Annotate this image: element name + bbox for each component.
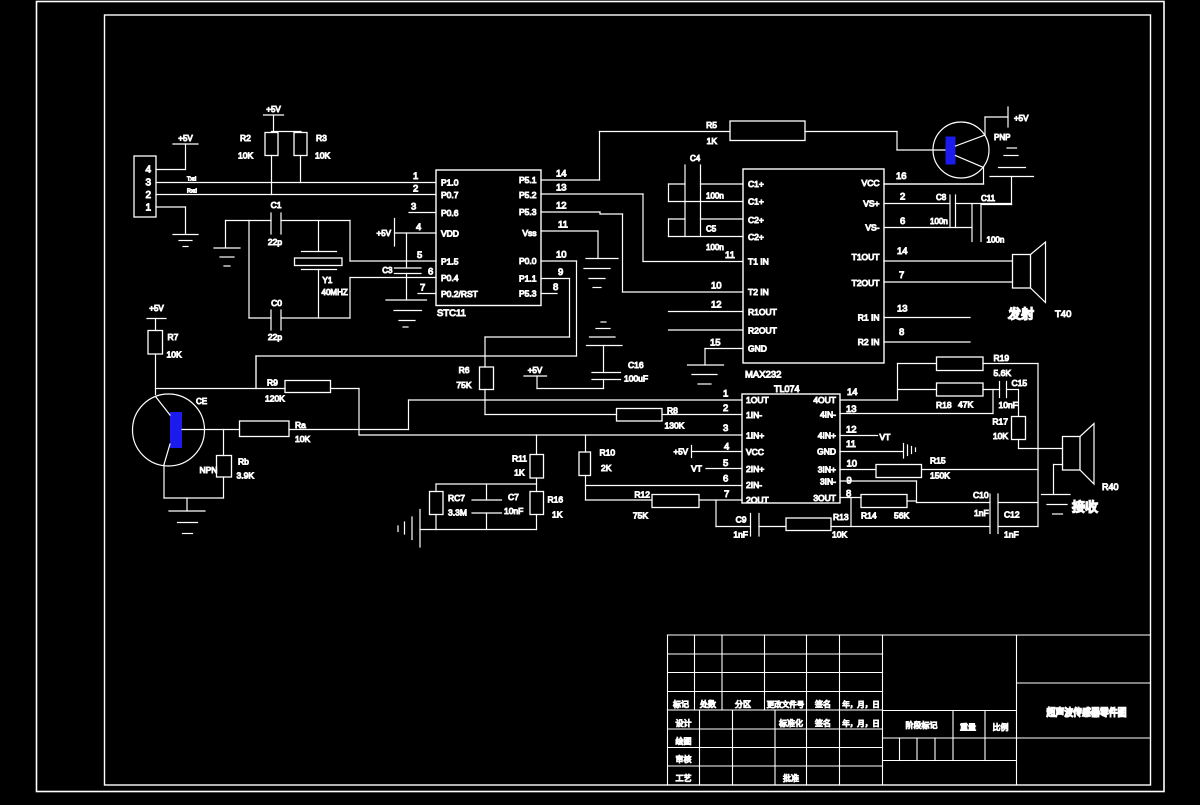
wire U2 VS+	[884, 203, 950, 205]
wire U2 GND pin15	[705, 349, 743, 366]
svg-text:设计: 设计	[676, 718, 692, 728]
svg-text:绘图: 绘图	[676, 736, 692, 746]
svg-text:审核: 审核	[676, 754, 692, 764]
wire main right bus	[1037, 364, 1039, 527]
svg-text:2OUT: 2OUT	[746, 495, 769, 505]
svg-text:10K: 10K	[832, 530, 847, 540]
wire C9 to R13	[759, 526, 786, 528]
ground (filter)	[398, 510, 420, 548]
svg-text:年，月，日: 年，月，日	[842, 718, 880, 728]
svg-text:+5V: +5V	[178, 134, 193, 143]
IC U1 STC11 body	[436, 170, 541, 319]
capacitor C9	[733, 514, 759, 540]
wire Y1 to U1 pin5	[350, 221, 436, 262]
svg-text:C5: C5	[706, 225, 717, 234]
crystal Y1	[295, 221, 348, 319]
wire C11 to ground node	[981, 204, 1012, 206]
svg-text:6: 6	[900, 216, 905, 227]
wire R18 to C15	[983, 389, 1000, 391]
svg-text:4IN+: 4IN+	[818, 431, 836, 441]
wire U2 T2IN	[623, 291, 744, 293]
svg-text:10: 10	[556, 250, 567, 261]
svg-text:Vss: Vss	[522, 228, 536, 238]
svg-text:接收: 接收	[1072, 500, 1099, 515]
svg-text:VDD: VDD	[441, 229, 459, 239]
IC U3 TL074 body	[742, 384, 840, 503]
power +5V (PNP)	[1008, 107, 1029, 127]
svg-text:RC7: RC7	[448, 493, 465, 503]
net VT (U3 pin12)	[840, 432, 890, 442]
ground (connector)	[173, 235, 198, 247]
wire R17 to R40	[1019, 440, 1063, 449]
transducer T40 (transmit)	[1007, 242, 1071, 322]
wire C8 to ground node	[956, 203, 1012, 205]
svg-text:3: 3	[145, 178, 151, 189]
svg-text:2: 2	[145, 190, 151, 201]
svg-text:P0.0: P0.0	[519, 256, 537, 266]
svg-text:PNP: PNP	[994, 133, 1010, 142]
transistor NPN	[133, 394, 218, 475]
svg-text:T1OUT: T1OUT	[852, 252, 880, 262]
wire U3 3IN+ to R15	[840, 469, 876, 471]
svg-text:签名: 签名	[815, 718, 831, 728]
svg-text:3IN-: 3IN-	[820, 477, 836, 487]
svg-text:3IN+: 3IN+	[818, 465, 836, 475]
wire U3 4OUT node	[840, 364, 898, 401]
wire U1 pin12 to U2 T2IN	[541, 212, 623, 292]
wire J1 pin2 Rxd to U1 pin2	[156, 189, 436, 195]
svg-text:C15: C15	[1012, 378, 1028, 388]
svg-text:C7: C7	[508, 492, 519, 502]
svg-text:10K: 10K	[238, 151, 253, 161]
capacitor C16	[592, 346, 648, 389]
resistor R15	[876, 456, 950, 481]
wire U3 VCC pin4	[692, 451, 743, 453]
wire R12 to U3 2OUT	[699, 499, 742, 501]
svg-text:6: 6	[723, 474, 728, 485]
capacitor C7	[472, 484, 523, 530]
svg-text:11: 11	[725, 250, 735, 261]
wire U3 GND pin11	[840, 451, 903, 453]
svg-text:1K: 1K	[514, 468, 525, 478]
svg-text:1nF: 1nF	[1004, 530, 1019, 540]
resistor R18	[898, 383, 984, 410]
svg-text:2IN-: 2IN-	[746, 480, 762, 490]
svg-text:75K: 75K	[633, 511, 648, 521]
svg-text:12: 12	[711, 300, 722, 311]
svg-text:GND: GND	[817, 447, 836, 457]
U2 R2OUT stub	[669, 329, 744, 331]
svg-text:P1.5: P1.5	[441, 257, 459, 267]
svg-text:+5V: +5V	[149, 304, 164, 313]
resistor R10	[579, 435, 615, 500]
U3 right pin labels	[813, 395, 836, 503]
svg-text:更改文件号: 更改文件号	[767, 699, 805, 709]
svg-text:1nF: 1nF	[733, 530, 748, 540]
resistor R9	[265, 378, 331, 404]
svg-text:4IN-: 4IN-	[820, 410, 836, 420]
svg-text:C2+: C2+	[748, 215, 764, 225]
ground (U3 pin11)	[904, 444, 916, 459]
svg-text:C12: C12	[1004, 510, 1020, 520]
wire U1 pin10 node	[256, 261, 577, 389]
wire U3 1OUT	[409, 399, 743, 401]
svg-text:1K: 1K	[552, 510, 563, 520]
svg-text:C4: C4	[690, 154, 701, 163]
wire U1 pin9 to R6	[485, 279, 570, 338]
svg-text:C9: C9	[736, 515, 747, 525]
resistor R5	[706, 120, 805, 146]
wire J1 pin4 to +5V	[156, 169, 186, 171]
wire U3 1IN- left	[485, 414, 617, 416]
U1 pin numbers right	[553, 169, 568, 294]
svg-text:签名: 签名	[815, 699, 831, 709]
svg-text:5: 5	[723, 458, 728, 469]
wire 2OUT junction down	[716, 500, 751, 527]
U1 pin8 stub	[541, 293, 557, 295]
svg-text:R14: R14	[861, 511, 877, 521]
svg-text:11: 11	[846, 439, 856, 450]
svg-text:R11: R11	[512, 454, 527, 464]
svg-text:P5.3: P5.3	[519, 289, 537, 299]
svg-text:R1 IN: R1 IN	[858, 313, 880, 323]
resistor R12	[633, 490, 699, 521]
wire J1 pin1 to ground	[156, 207, 186, 234]
U2 R2IN stub	[884, 341, 970, 343]
resistor R7	[148, 331, 182, 360]
wire R8 to U3 pin2	[662, 414, 742, 416]
svg-text:R7: R7	[168, 332, 179, 342]
wire VDD pin4	[395, 233, 437, 261]
wire R10 to R12 line	[586, 499, 653, 501]
U2 pin numbers right	[896, 171, 908, 338]
svg-text:3OUT: 3OUT	[813, 493, 836, 503]
wire NPN emitter	[164, 465, 224, 499]
svg-text:120K: 120K	[265, 394, 285, 404]
wire C4 top (C1+)	[669, 183, 744, 185]
svg-text:C1+: C1+	[748, 197, 764, 207]
svg-text:R12: R12	[634, 490, 650, 500]
svg-text:R13: R13	[833, 512, 849, 522]
svg-text:工艺: 工艺	[676, 774, 692, 783]
svg-text:C16: C16	[628, 360, 644, 370]
U3 pin numbers left	[723, 389, 729, 501]
svg-text:R2: R2	[240, 133, 251, 143]
svg-text:5: 5	[417, 250, 422, 261]
wire crystal top rail	[226, 220, 351, 222]
wire U1 pin14 to R5	[541, 132, 730, 181]
wire C5 top (C2+)	[669, 218, 744, 220]
wire C5 bracket	[668, 219, 670, 237]
svg-text:C0: C0	[271, 298, 282, 308]
capacitor C4	[685, 154, 724, 237]
U2 R1OUT stub	[669, 311, 744, 313]
svg-text:分区: 分区	[735, 700, 751, 709]
capacitor C3	[382, 261, 421, 300]
svg-text:VS-: VS-	[865, 223, 879, 233]
wire crystal bottom rail	[249, 317, 350, 319]
svg-text:C1: C1	[271, 200, 282, 210]
svg-text:4: 4	[416, 222, 421, 233]
svg-text:R9: R9	[267, 378, 278, 388]
svg-text:100uF: 100uF	[624, 374, 648, 384]
wire U3 3OUT	[840, 497, 861, 499]
wire Ra to 1OUT	[289, 400, 409, 430]
svg-text:R40: R40	[1102, 482, 1119, 492]
svg-text:8: 8	[553, 282, 558, 293]
wire U3 2IN- line	[586, 485, 743, 487]
svg-text:R2OUT: R2OUT	[748, 326, 777, 336]
resistor R16	[530, 484, 563, 530]
svg-text:1IN-: 1IN-	[746, 410, 762, 420]
svg-text:13: 13	[897, 304, 908, 315]
svg-text:7: 7	[899, 270, 904, 281]
svg-text:NPN: NPN	[200, 465, 218, 475]
svg-text:阶段标记: 阶段标记	[906, 720, 938, 730]
wire R3 to Txd	[300, 156, 302, 183]
svg-text:+5V: +5V	[674, 448, 689, 457]
svg-text:12: 12	[846, 425, 857, 436]
U2 R1IN stub	[884, 317, 970, 319]
svg-text:R2 IN: R2 IN	[858, 337, 880, 347]
svg-text:100n: 100n	[706, 243, 724, 252]
wire U3 4IN-	[840, 390, 993, 414]
svg-text:16: 16	[896, 171, 907, 182]
svg-text:10nF: 10nF	[504, 506, 523, 516]
svg-text:100n: 100n	[987, 236, 1005, 245]
svg-text:40MHZ: 40MHZ	[322, 288, 348, 297]
power +5V (R7)	[147, 304, 166, 331]
svg-text:标记: 标记	[673, 699, 689, 709]
svg-text:6: 6	[428, 267, 433, 278]
svg-text:100n: 100n	[706, 192, 724, 201]
ground (Vss)	[584, 259, 618, 288]
wire R2 to Rxd	[271, 156, 273, 195]
svg-text:Y1: Y1	[323, 276, 333, 285]
wire C15 to R17	[1007, 390, 1019, 417]
capacitor C15	[999, 378, 1028, 410]
svg-text:处数: 处数	[700, 699, 716, 709]
ground (R40)	[1042, 495, 1071, 515]
wire U1 pin13 to U2 T1IN	[541, 194, 643, 262]
svg-text:7: 7	[724, 489, 729, 500]
capacitor C5	[706, 225, 724, 253]
U1 right pin labels	[519, 175, 537, 299]
svg-text:+5V: +5V	[1014, 114, 1029, 123]
wire C1- pin	[669, 201, 744, 203]
svg-text:10: 10	[711, 281, 722, 292]
svg-text:Ra: Ra	[295, 420, 306, 430]
svg-text:3.3M: 3.3M	[448, 508, 467, 518]
svg-text:150K: 150K	[930, 471, 950, 481]
svg-text:10K: 10K	[167, 350, 182, 360]
U1 pin numbers left	[411, 171, 433, 294]
svg-text:Txd: Txd	[187, 177, 196, 183]
resistor R17	[992, 417, 1025, 442]
wire PNP emitter to +5V	[985, 117, 1008, 135]
svg-text:+5V: +5V	[528, 366, 543, 375]
capacitor C12 label	[1004, 510, 1020, 540]
svg-text:2: 2	[900, 192, 905, 203]
svg-text:MAX232: MAX232	[745, 370, 781, 381]
svg-text:11: 11	[558, 220, 568, 231]
wire crystal left rail	[248, 221, 250, 319]
U1 pin7 stub	[418, 293, 436, 295]
wire +5V to C16	[537, 388, 604, 390]
resistor R8	[617, 406, 685, 431]
svg-text:1nF: 1nF	[974, 508, 989, 518]
title text	[1046, 706, 1127, 719]
svg-text:1: 1	[413, 171, 418, 182]
svg-text:75K: 75K	[456, 380, 471, 390]
svg-text:TL074: TL074	[774, 384, 800, 394]
svg-text:R5: R5	[706, 120, 717, 130]
svg-text:VCC: VCC	[862, 178, 880, 188]
capacitor C10 C12 plates	[990, 494, 998, 534]
svg-text:5.6K: 5.6K	[994, 368, 1012, 378]
wire U3 1IN+ line	[359, 434, 742, 436]
svg-text:1: 1	[723, 389, 728, 400]
svg-text:P0.7: P0.7	[441, 190, 459, 200]
svg-text:P0.2/RST: P0.2/RST	[441, 289, 478, 299]
svg-text:P1.1: P1.1	[519, 274, 537, 284]
wire filter node	[436, 483, 537, 485]
title block labels	[673, 699, 1009, 783]
svg-text:T1 IN: T1 IN	[748, 257, 769, 267]
svg-text:3: 3	[411, 202, 416, 213]
wire filter bottom	[420, 529, 537, 531]
svg-text:超声波传感器零件图: 超声波传感器零件图	[1046, 706, 1127, 719]
svg-text:STC11: STC11	[437, 308, 466, 319]
resistor R2	[238, 133, 278, 161]
wire C12 right	[998, 526, 1038, 528]
svg-text:4: 4	[724, 442, 729, 453]
svg-text:重量: 重量	[960, 722, 976, 732]
resistor R3	[294, 133, 330, 161]
svg-text:100n: 100n	[930, 217, 948, 226]
svg-text:Rb: Rb	[238, 457, 249, 467]
svg-text:22p: 22p	[268, 237, 282, 247]
svg-text:3: 3	[723, 423, 728, 434]
ground (charge pump)	[990, 148, 1034, 205]
svg-text:14: 14	[897, 246, 908, 257]
svg-text:T2OUT: T2OUT	[852, 278, 880, 288]
wire U2 T2OUT to T40	[884, 281, 1013, 283]
wire R5 to PNP base	[805, 132, 946, 151]
svg-text:10K: 10K	[295, 434, 310, 444]
wire C10 right	[998, 502, 1038, 504]
svg-text:Rxd: Rxd	[187, 189, 197, 195]
wire R7 to collector	[155, 354, 157, 395]
svg-text:P1.0: P1.0	[441, 178, 459, 188]
svg-text:10K: 10K	[993, 431, 1008, 441]
net VT (U3 pin5)	[691, 464, 742, 474]
svg-text:批准: 批准	[783, 773, 799, 783]
U3 left pin labels	[746, 395, 769, 505]
svg-text:P5.3: P5.3	[519, 207, 537, 217]
power +5V (VDD)	[377, 219, 395, 247]
wire collector node to R9	[156, 388, 286, 390]
capacitor C8	[930, 193, 956, 228]
svg-text:C2+: C2+	[748, 232, 764, 242]
wire U2 T1OUT to T40	[884, 260, 1013, 262]
ground (NPN)	[169, 498, 205, 534]
svg-text:T2 IN: T2 IN	[748, 287, 769, 297]
capacitor C1	[268, 200, 282, 247]
svg-text:R3: R3	[316, 133, 327, 143]
capacitor C10 label	[973, 490, 989, 518]
wire R13 to C12 line	[831, 526, 990, 528]
wire C4 bracket	[668, 184, 670, 202]
svg-text:10K: 10K	[315, 151, 330, 161]
power +5V (U3 VCC)	[674, 446, 692, 458]
svg-text:T40: T40	[1055, 309, 1071, 320]
IC U2 MAX232 body	[743, 169, 884, 381]
svg-text:R10: R10	[600, 448, 616, 458]
wire R6 to 1IN- line	[484, 390, 486, 415]
ground (C16)	[587, 322, 623, 346]
svg-text:8: 8	[899, 327, 904, 338]
svg-text:P0.6: P0.6	[441, 208, 459, 218]
wire NPN base to Ra	[182, 429, 240, 431]
svg-text:12: 12	[556, 201, 567, 212]
U1 left pin labels	[441, 178, 478, 300]
svg-text:R18: R18	[936, 400, 952, 410]
svg-text:VCC: VCC	[746, 447, 764, 457]
svg-text:比例: 比例	[993, 722, 1009, 732]
wire 3OUT junction	[850, 498, 852, 527]
svg-text:10: 10	[847, 459, 858, 470]
svg-text:15: 15	[710, 338, 721, 349]
svg-text:22p: 22p	[268, 332, 282, 342]
svg-text:R6: R6	[459, 365, 470, 375]
svg-text:P0.4: P0.4	[441, 273, 459, 283]
svg-text:C8: C8	[936, 193, 947, 202]
resistor R14	[861, 495, 909, 521]
resistor Rb	[217, 430, 255, 499]
power +5V (R2 R3)	[264, 105, 302, 132]
svg-text:CE: CE	[196, 397, 207, 406]
wire node to pin10 line	[255, 356, 257, 389]
svg-text:C10: C10	[973, 490, 989, 500]
svg-text:年，月，日: 年，月，日	[842, 699, 880, 709]
U2 left pin labels	[748, 179, 777, 354]
wire R14 right	[907, 500, 917, 502]
wire PNP collector to VCC	[884, 168, 984, 185]
ground (U2 pin15)	[688, 365, 724, 384]
wire U3 3IN-	[840, 481, 917, 503]
wire R15 right	[922, 469, 1039, 471]
resistor R13	[786, 512, 849, 540]
svg-text:7: 7	[420, 283, 425, 294]
svg-text:47K: 47K	[958, 400, 973, 410]
ground (C3)	[386, 300, 427, 327]
wire U2 T1IN	[643, 261, 743, 263]
svg-text:发射: 发射	[1007, 307, 1034, 322]
svg-text:13: 13	[556, 183, 567, 194]
wire C10 line left	[917, 502, 991, 504]
ground (crystal)	[214, 221, 240, 267]
svg-text:4OUT: 4OUT	[813, 395, 836, 405]
title block grid	[668, 635, 1151, 785]
svg-text:14: 14	[556, 169, 567, 180]
svg-text:R19: R19	[994, 353, 1010, 363]
svg-text:1OUT: 1OUT	[746, 395, 769, 405]
svg-text:14: 14	[847, 387, 858, 398]
U2 pin numbers left	[710, 250, 735, 349]
power +5V (connector)	[173, 134, 198, 170]
svg-text:130K: 130K	[665, 421, 685, 431]
